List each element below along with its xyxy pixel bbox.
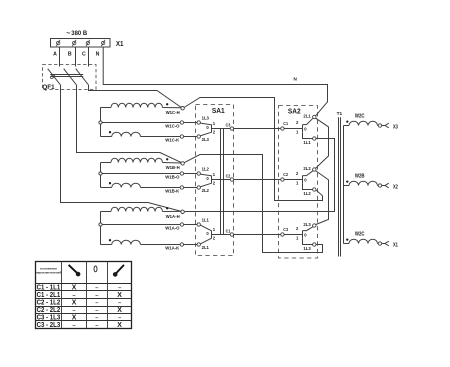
svg-text:W2C: W2C bbox=[355, 114, 365, 120]
svg-text:W1C-H: W1C-H bbox=[166, 110, 180, 115]
node W1B-H junction bbox=[181, 162, 184, 165]
wire SA1 internal link 2 bbox=[223, 129, 225, 235]
svg-text:C2 - 2L2: C2 - 2L2 bbox=[37, 307, 61, 314]
svg-text:W1B-K: W1B-K bbox=[165, 189, 180, 194]
table header symbol: position 0 bbox=[94, 266, 97, 272]
svg-text:N: N bbox=[294, 76, 298, 81]
svg-text:X: X bbox=[117, 322, 122, 329]
node W2B terminal bbox=[378, 184, 381, 187]
table row C3 - 1L3 bbox=[37, 315, 122, 322]
wire W1B-H route to SA2 contact 1L3 bbox=[184, 155, 322, 253]
svg-text:1: 1 bbox=[213, 172, 216, 177]
svg-text:2L3: 2L3 bbox=[202, 137, 210, 142]
svg-text:–: – bbox=[118, 301, 122, 307]
wire SA1 C3 to SA2 C1 bbox=[234, 128, 281, 130]
wire SA2 2L1 to 2L2 bbox=[316, 118, 329, 168]
table header: положение переключателей bbox=[36, 267, 62, 275]
svg-text:SA2: SA2 bbox=[288, 107, 301, 116]
svg-text:C2 - 1L2: C2 - 1L2 bbox=[37, 300, 61, 307]
svg-text:X1: X1 bbox=[393, 243, 398, 249]
winding W1C-О tap wire bbox=[101, 123, 198, 129]
node W2C terminal bbox=[378, 242, 381, 245]
label X1 bbox=[116, 41, 124, 48]
connector X2 bbox=[382, 183, 398, 190]
switch SA2 section C2 bbox=[281, 166, 316, 196]
svg-text:SA1: SA1 bbox=[212, 106, 225, 115]
svg-text:1L2: 1L2 bbox=[202, 166, 210, 171]
svg-text:1L1: 1L1 bbox=[202, 217, 210, 222]
svg-text:QF1: QF1 bbox=[42, 84, 54, 91]
wire SA1 C1 to SA2 C3 bbox=[234, 234, 281, 236]
wire SA2 2L2 to 2L3 bbox=[316, 171, 329, 225]
svg-text:T1: T1 bbox=[337, 111, 343, 116]
node W1A-О terminal bbox=[180, 223, 183, 226]
winding W1B-H coil bbox=[101, 158, 182, 170]
svg-text:0: 0 bbox=[304, 177, 307, 182]
node W1B-О bus junction bbox=[99, 172, 102, 175]
svg-text:2L1: 2L1 bbox=[202, 245, 210, 250]
svg-text:N: N bbox=[96, 51, 100, 57]
switch SA1 section C2 bbox=[197, 166, 234, 193]
wire phase C feed to W1C-H bbox=[89, 85, 182, 108]
svg-text:C3: C3 bbox=[226, 123, 231, 128]
switch SA1 enclosure bbox=[196, 105, 234, 256]
svg-text:1L1: 1L1 bbox=[303, 140, 311, 145]
wire W2 left bus bbox=[343, 126, 345, 244]
node W1C-О bus junction bbox=[99, 121, 102, 124]
winding W1A-О tap wire bbox=[101, 225, 198, 231]
table row C3 - 2L3 bbox=[37, 322, 123, 329]
svg-text:C1 - 1L1: C1 - 1L1 bbox=[37, 285, 61, 292]
winding W2B (X2) bbox=[344, 174, 379, 186]
svg-text:W2B: W2B bbox=[355, 174, 365, 180]
svg-text:2L2: 2L2 bbox=[202, 188, 210, 193]
svg-text:X: X bbox=[72, 300, 77, 307]
node W1C-K terminal bbox=[180, 135, 183, 138]
svg-text:1L3: 1L3 bbox=[303, 246, 311, 251]
table row C1 - 2L1 bbox=[37, 292, 123, 299]
svg-text:1: 1 bbox=[213, 227, 216, 232]
svg-text:W1A-О: W1A-О bbox=[165, 225, 180, 230]
winding W1A-H coil bbox=[101, 207, 182, 219]
svg-text:~: ~ bbox=[66, 28, 70, 37]
label N bbox=[294, 76, 298, 81]
svg-text:C1: C1 bbox=[283, 121, 288, 126]
svg-text:0: 0 bbox=[206, 176, 209, 181]
svg-text:W1A-H: W1A-H bbox=[166, 214, 180, 219]
svg-text:0: 0 bbox=[304, 126, 307, 131]
winding W1B-О tap wire bbox=[101, 174, 198, 180]
switch SA1 section C3 bbox=[197, 115, 234, 142]
svg-text:2L3: 2L3 bbox=[303, 222, 311, 227]
winding W1C-K coil bbox=[101, 131, 198, 143]
svg-text:1: 1 bbox=[296, 181, 299, 186]
phase labels A B C N bbox=[53, 51, 100, 57]
svg-text:C3: C3 bbox=[283, 227, 288, 232]
svg-text:A: A bbox=[53, 51, 57, 57]
winding W1C left bus bbox=[100, 108, 102, 137]
winding W2C (X1) bbox=[344, 232, 379, 244]
svg-text:1L2: 1L2 bbox=[303, 191, 311, 196]
wire W1A-H route to SA2 contact 1L1 bbox=[184, 139, 334, 212]
node W1A-H junction bbox=[181, 210, 184, 213]
svg-text:W1A-K: W1A-K bbox=[165, 246, 180, 251]
svg-text:переключателей: переключателей bbox=[36, 271, 62, 275]
wire phase B drop to QF1 bbox=[75, 47, 77, 67]
table row C2 - 1L2 bbox=[37, 300, 122, 307]
winding W2C (X3) bbox=[344, 114, 379, 126]
winding W1B left bus bbox=[100, 163, 102, 188]
node W1C-H junction bbox=[181, 107, 184, 110]
svg-text:X: X bbox=[117, 307, 122, 314]
svg-text:380 В: 380 В bbox=[71, 30, 87, 37]
node W1A-K terminal bbox=[180, 243, 183, 246]
svg-text:W1C-K: W1C-K bbox=[165, 138, 180, 143]
label QF1 bbox=[42, 84, 54, 91]
winding W1A left bus bbox=[100, 212, 102, 245]
svg-text:X: X bbox=[72, 285, 77, 292]
connector X3 bbox=[382, 123, 398, 130]
circuit breaker QF1 bbox=[43, 65, 97, 90]
svg-text:X: X bbox=[117, 292, 122, 299]
connector X1 bbox=[382, 241, 398, 248]
svg-text:X: X bbox=[72, 315, 77, 322]
transformer T1 core bbox=[339, 117, 341, 256]
svg-text:0: 0 bbox=[304, 232, 307, 237]
node W2C terminal bbox=[378, 124, 381, 127]
table header symbol: position 2 lever bbox=[113, 265, 124, 277]
wire phase A drop to QF1 bbox=[59, 47, 61, 67]
svg-text:1L3: 1L3 bbox=[202, 115, 210, 120]
svg-text:W2C: W2C bbox=[355, 232, 365, 238]
terminal block X1 bbox=[51, 39, 111, 48]
svg-text:C1 - 2L1: C1 - 2L1 bbox=[37, 292, 61, 299]
svg-text:2: 2 bbox=[213, 235, 216, 240]
table row C1 - 1L1 bbox=[37, 285, 122, 292]
switch SA2 enclosure bbox=[279, 106, 318, 259]
svg-text:2: 2 bbox=[213, 129, 216, 134]
label SA2 bbox=[288, 107, 301, 116]
svg-text:W1B-О: W1B-О bbox=[165, 174, 180, 179]
switch SA2 section C1 bbox=[281, 114, 316, 145]
switch position table bbox=[36, 262, 132, 329]
wire SA1 internal link 1 bbox=[220, 129, 222, 235]
svg-text:–: – bbox=[95, 301, 99, 307]
svg-text:W1B-H: W1B-H bbox=[166, 165, 180, 170]
svg-text:B: B bbox=[68, 51, 72, 57]
wire neutral N from X1 to SA2 contact 2L1 bbox=[103, 47, 327, 116]
wire W1C-H route to SA2 contact 1L2 bbox=[184, 98, 323, 201]
wire phase C drop to QF1 bbox=[88, 47, 90, 67]
winding W1C-H coil bbox=[101, 103, 182, 115]
svg-text:2: 2 bbox=[296, 226, 299, 231]
svg-text:2: 2 bbox=[296, 120, 299, 125]
wire SA1 C2 to SA2 C2 bbox=[234, 179, 281, 181]
switch SA2 section C3 bbox=[281, 222, 316, 251]
table row C2 - 2L2 bbox=[37, 307, 123, 314]
svg-text:1: 1 bbox=[296, 236, 299, 241]
wire phase A feed to W1A-H bbox=[61, 85, 182, 211]
switch SA1 section C1 bbox=[197, 217, 234, 250]
winding W1A-K coil bbox=[101, 239, 198, 251]
node W1A-О bus junction bbox=[99, 223, 102, 226]
svg-text:C3 - 1L3: C3 - 1L3 bbox=[37, 315, 61, 322]
node W1C-О terminal bbox=[180, 121, 183, 124]
svg-text:0: 0 bbox=[206, 125, 209, 130]
svg-text:0: 0 bbox=[206, 231, 209, 236]
svg-text:1: 1 bbox=[296, 130, 299, 135]
node W1B-О terminal bbox=[180, 172, 183, 175]
label T1 bbox=[337, 111, 343, 116]
svg-text:1: 1 bbox=[213, 121, 216, 126]
svg-text:2L1: 2L1 bbox=[303, 114, 311, 119]
svg-text:W1C-О: W1C-О bbox=[165, 123, 180, 128]
svg-text:2L2: 2L2 bbox=[303, 166, 311, 171]
svg-text:C2: C2 bbox=[283, 172, 288, 177]
svg-text:2: 2 bbox=[296, 171, 299, 176]
node W1B-K terminal bbox=[180, 186, 183, 189]
svg-text:X1: X1 bbox=[116, 41, 124, 48]
svg-text:2: 2 bbox=[213, 180, 216, 185]
svg-text:C2: C2 bbox=[226, 174, 231, 179]
svg-text:C3 - 2L3: C3 - 2L3 bbox=[37, 322, 61, 329]
svg-text:X3: X3 bbox=[393, 125, 398, 131]
wire phase B feed to W1B-H bbox=[77, 85, 182, 163]
svg-text:X2: X2 bbox=[393, 185, 398, 191]
winding W1B-K coil bbox=[101, 182, 198, 194]
power label 380V bbox=[66, 28, 87, 37]
table header symbol: position 1 lever bbox=[69, 265, 81, 277]
svg-text:C: C bbox=[82, 51, 86, 57]
label SA1 bbox=[212, 106, 225, 115]
svg-text:C1: C1 bbox=[226, 229, 231, 234]
